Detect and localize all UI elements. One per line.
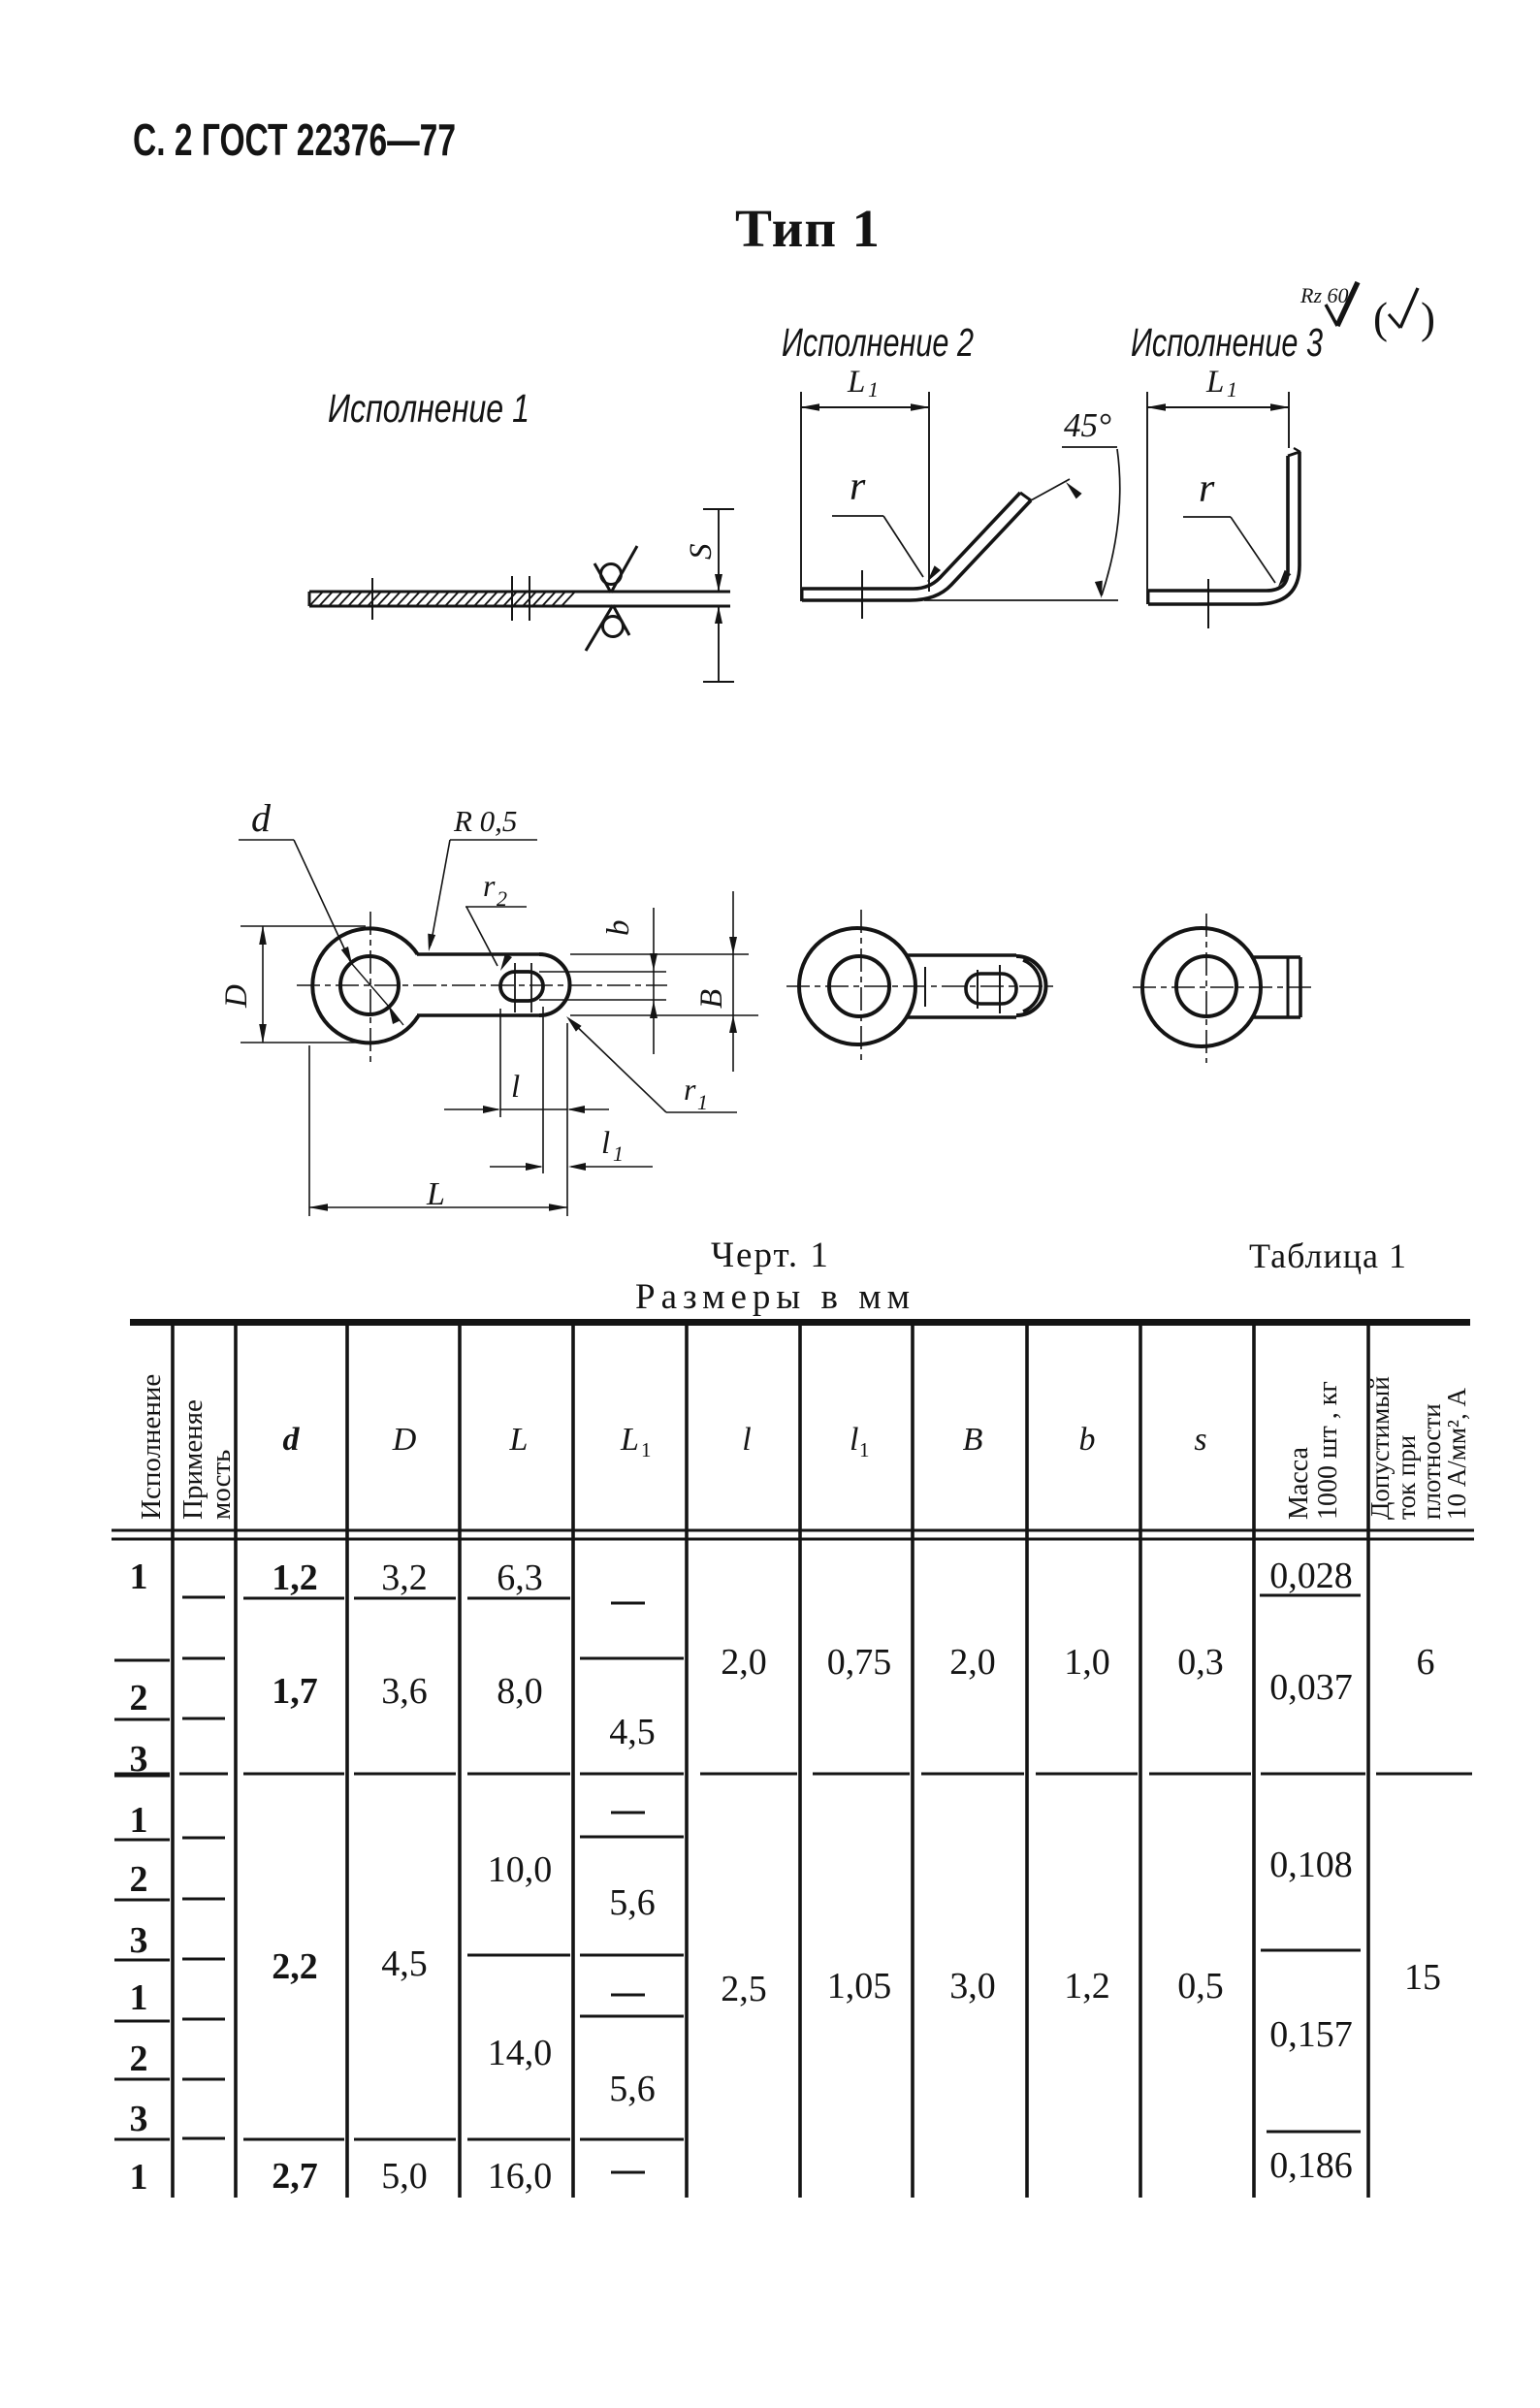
svg-text:2,5: 2,5 [721,1969,767,2009]
svg-text:мость: мость [206,1450,237,1520]
svg-text:1: 1 [641,1438,652,1461]
svg-text:Тип 1: Тип 1 [735,199,881,258]
view3 folded tab [1252,955,1300,959]
col2 dashes [182,1596,225,1599]
D separators [354,1597,456,1600]
view2 centerlines [860,910,862,1063]
dimension B [732,891,734,1072]
label d with leader [239,839,294,841]
svg-text:3: 3 [130,2099,148,2139]
roughness mark Rz60 check [1326,305,1337,326]
svg-text:Размеры в мм: Размеры в мм [635,1277,915,1317]
svg-text:L: L [620,1422,639,1458]
svg-text:5,6: 5,6 [609,1882,656,1923]
view2 tab [907,953,1016,957]
view2 oval slot [966,974,1016,1004]
svg-text:1: 1 [130,1557,148,1597]
dimension b [653,908,655,1054]
svg-text:1,2: 1,2 [1064,1966,1110,2007]
svg-text:Масса: Масса [1284,1446,1314,1520]
view2 ring [799,928,915,1044]
svg-text:1: 1 [130,1977,148,2018]
svg-text:Таблица 1: Таблица 1 [1249,1236,1407,1275]
hole d main view [340,956,399,1014]
svg-text:r: r [850,465,866,509]
svg-text:4,5: 4,5 [381,1943,428,1984]
svg-text:0,5: 0,5 [1177,1966,1224,2007]
svg-text:3,0: 3,0 [949,1966,996,2007]
svg-text:2,7: 2,7 [272,2156,318,2197]
svg-text:Черт. 1: Черт. 1 [711,1236,830,1275]
svg-text:L: L [847,365,865,400]
centerlines main view [297,984,667,986]
svg-text:1,05: 1,05 [827,1966,892,2007]
centerline tick 3 [529,576,530,621]
label r2 with leader [465,906,527,908]
svg-text:l: l [742,1422,751,1458]
svg-text:1: 1 [130,1800,148,1841]
centerline tick 1 [371,578,373,620]
svg-text:2,0: 2,0 [721,1642,767,1683]
svg-text:15: 15 [1404,1957,1441,1998]
svg-text:1: 1 [859,1438,870,1461]
svg-text:1: 1 [697,1090,708,1114]
svg-text:16,0: 16,0 [488,2156,553,2197]
roughness symbol bottom [603,617,624,637]
svg-text:Исполнение 1: Исполнение 1 [328,386,529,431]
label R0,5 with leader [450,839,537,841]
table top rule [130,1319,1470,1326]
svg-text:3: 3 [130,1920,148,1961]
view3 centerlines [1205,914,1207,1063]
svg-text:l: l [850,1422,858,1458]
roughness symbol top [601,564,622,585]
svg-text:b: b [1079,1422,1096,1458]
svg-text:2: 2 [130,2039,148,2079]
svg-text:1: 1 [613,1141,624,1166]
svg-text:2,2: 2,2 [272,1946,318,1987]
svg-text:Допустимый: Допустимый [1365,1376,1395,1520]
svg-text:r: r [483,868,496,903]
svg-text:L: L [509,1422,529,1458]
col1 row separators [114,1659,170,1662]
dimension L [309,1206,567,1208]
dimension D [241,925,366,927]
svg-text:Исполнение 2: Исполнение 2 [782,320,974,365]
svg-text:1,2: 1,2 [272,1557,318,1598]
svg-text:Rz 60: Rz 60 [1299,283,1349,307]
45deg angle arc and leader [1031,479,1070,500]
svg-text:(: ( [1373,294,1388,342]
lug outline main view [312,928,418,1043]
Massa separators [1260,1594,1361,1597]
dimension L1 (isp3) [1147,406,1289,408]
tick on bar (isp3) [1207,579,1209,628]
group separator row3/row4 [114,1773,170,1776]
svg-text:6: 6 [1417,1642,1435,1683]
bent lug 90deg (isp3) [1147,591,1150,604]
svg-text:Применяе: Применяе [177,1399,209,1520]
svg-text:1: 1 [868,377,879,401]
centerline tick 2 [511,576,513,621]
table vertical rules [171,1326,175,2198]
svg-text:B: B [694,989,729,1009]
svg-text:4,5: 4,5 [609,1712,656,1752]
svg-text:2: 2 [130,1678,148,1718]
baseline extension (isp2) [924,599,1118,601]
svg-text:r: r [684,1072,696,1107]
svg-text:2,0: 2,0 [949,1642,996,1683]
svg-text:D: D [219,984,254,1009]
flat lug side view bar [309,591,730,594]
svg-text:5,0: 5,0 [381,2156,428,2197]
svg-text:l: l [601,1126,610,1161]
svg-text:0,75: 0,75 [827,1642,892,1683]
svg-text:14,0: 14,0 [488,2033,553,2073]
svg-text:1: 1 [130,2157,148,2198]
oval slot main view [500,972,543,1001]
d separators [243,1597,344,1600]
svg-text:0,028: 0,028 [1269,1556,1353,1596]
svg-text:L: L [1205,365,1224,400]
L1 dashes [611,1602,645,1605]
tick on bar (isp2) [861,570,863,619]
svg-text:0,157: 0,157 [1269,2014,1353,2055]
dimension L1 (isp2) [801,406,929,408]
svg-text:45°: 45° [1064,406,1111,444]
dimension l [444,1108,498,1110]
svg-text:1,7: 1,7 [272,1671,318,1712]
svg-text:L: L [426,1176,445,1212]
svg-text:10,0: 10,0 [488,1849,553,1890]
table header double rule [112,1529,1474,1532]
svg-text:3,6: 3,6 [381,1671,428,1712]
label r1 with leader [666,1111,737,1113]
L separators [467,1597,570,1600]
svg-text:С. 2 ГОСТ 22376—77: С. 2 ГОСТ 22376—77 [133,114,456,165]
svg-text:d: d [251,796,272,840]
extension lines below [499,1009,501,1117]
svg-text:0,108: 0,108 [1269,1845,1353,1885]
svg-text:6,3: 6,3 [497,1557,543,1598]
svg-text:): ) [1421,294,1435,342]
extension lines b/B [570,953,749,955]
svg-text:0,037: 0,037 [1269,1667,1353,1708]
dimension S [718,510,720,591]
svg-text:3,2: 3,2 [381,1557,428,1598]
svg-text:Исполнение: Исполнение [136,1374,167,1520]
svg-text:2: 2 [497,886,507,911]
svg-text:10 А/мм², А: 10 А/мм², А [1442,1387,1471,1520]
svg-text:0,3: 0,3 [1177,1642,1224,1683]
svg-text:r: r [1199,466,1215,511]
svg-text:d: d [283,1422,301,1458]
view3 ring [1142,928,1261,1046]
svg-text:B: B [963,1422,983,1458]
svg-text:8,0: 8,0 [497,1671,543,1712]
svg-text:b: b [601,920,636,937]
svg-text:0,186: 0,186 [1269,2145,1353,2186]
svg-text:S: S [684,544,719,561]
svg-text:1,0: 1,0 [1064,1642,1110,1683]
bent lug 45deg (isp2) [801,589,804,600]
svg-text:l: l [511,1070,520,1105]
svg-text:D: D [392,1422,417,1458]
svg-text:1000 шт , кг: 1000 шт , кг [1313,1381,1343,1520]
L1 separators [580,1657,684,1660]
section hatching [309,592,323,606]
svg-text:Исполнение 3: Исполнение 3 [1131,320,1323,365]
dimension l1 [490,1166,541,1168]
svg-text:1: 1 [1227,377,1237,401]
svg-text:R 0,5: R 0,5 [453,804,517,838]
svg-text:5,6: 5,6 [609,2069,656,2109]
svg-text:s: s [1194,1422,1206,1458]
svg-text:2: 2 [130,1859,148,1900]
